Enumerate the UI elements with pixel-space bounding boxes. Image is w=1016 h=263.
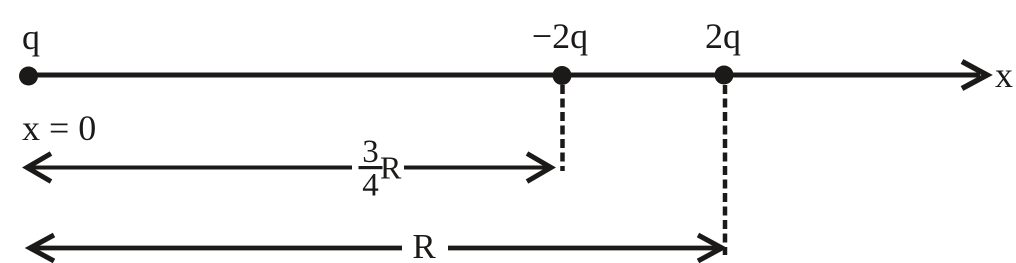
dimension arrow R right head [698,235,722,261]
svg-text:3: 3 [362,134,379,170]
svg-text:x: x [995,55,1013,95]
svg-text:q: q [22,17,40,57]
dimension arrow 3/4 R left segment [30,166,352,170]
svg-text:R: R [412,227,436,263]
charge -2q dot [553,66,572,85]
fraction bar [359,166,383,169]
svg-text:x = 0: x = 0 [22,108,96,148]
dimension arrow 3/4 R right segment [404,166,548,170]
dimension arrow R left head [30,235,54,261]
dashed drop line under -2q [560,85,565,171]
svg-text:2q: 2q [705,16,741,56]
svg-text:R: R [380,150,402,186]
dimension arrow R left segment [33,246,402,251]
charge q dot [19,67,38,86]
x-axis arrowhead [962,62,987,89]
svg-text:−2q: −2q [532,16,588,56]
charge 2q dot [715,66,734,85]
dimension arrow R right segment [448,246,718,251]
dimension arrow 3/4 R left head [27,154,51,182]
dimension arrow 3/4 R right head [527,154,551,182]
svg-text:4: 4 [362,168,379,204]
x-axis line [28,73,980,78]
dashed drop line under 2q [723,85,728,255]
